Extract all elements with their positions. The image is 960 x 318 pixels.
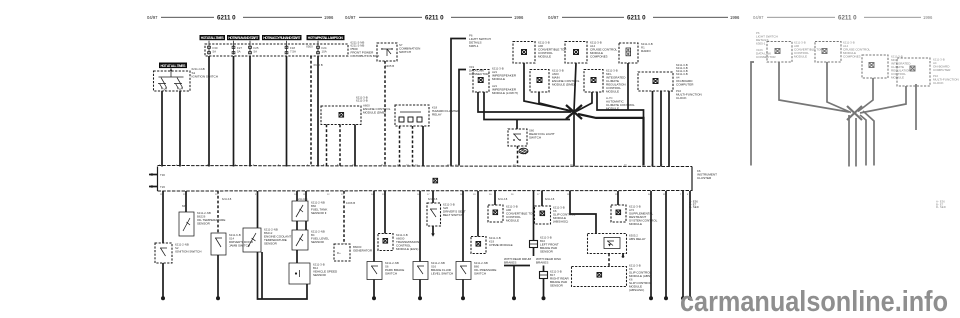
svg-text:CONNECTOR: CONNECTOR xyxy=(469,72,489,76)
wire DME pin 3 to cluster xyxy=(354,125,356,167)
svg-text:COMPUTER: COMPUTER xyxy=(676,83,694,87)
wire DME pin 2 to cluster xyxy=(339,125,341,167)
svg-text:D- SED: D- SED xyxy=(689,205,699,209)
ground dot park brake xyxy=(372,296,376,300)
svg-text:8: 8 xyxy=(687,194,689,196)
svg-text:12: 12 xyxy=(327,194,330,196)
svg-text:04/97: 04/97 xyxy=(345,15,356,20)
fuse F27 xyxy=(232,46,242,55)
slip control module upper box xyxy=(535,206,576,225)
svg-text:SENSOR: SENSOR xyxy=(264,242,278,246)
wire cluster ground run 3 xyxy=(682,191,684,297)
wire between fuel sensors xyxy=(296,221,298,230)
sheet header column 4 xyxy=(753,15,933,22)
splice junction X xyxy=(566,105,582,119)
svg-text:R: R xyxy=(179,88,181,92)
wire cluster to fuel tank sensor xyxy=(296,191,298,201)
wire key switch to ground xyxy=(162,263,164,297)
ground dot pad sensor xyxy=(542,296,546,300)
wire cluster to ignition key switch xyxy=(162,191,164,243)
svg-text:D- SED: D- SED xyxy=(936,205,946,209)
ground dot jamb switch xyxy=(216,296,220,300)
convertible top control module lower xyxy=(488,205,534,223)
off-page arrow to light switch details xyxy=(451,34,491,166)
bus left pin arrow 2 xyxy=(149,185,165,189)
ground dot run 2 xyxy=(664,296,668,300)
wire fuse F25 to cluster xyxy=(249,56,251,167)
svg-text:6211-CAB: 6211-CAB xyxy=(297,198,308,201)
wire climate elbow to cluster corner xyxy=(597,92,644,117)
ghost module box B xyxy=(815,41,871,63)
svg-text:6211-3-B: 6211-3-B xyxy=(498,199,508,201)
off-page arrow to data link connector xyxy=(459,65,489,166)
svg-text:SENSOR: SENSOR xyxy=(313,273,327,277)
bus left pin arrow 1 xyxy=(149,173,165,177)
fuse F18 xyxy=(285,46,296,55)
svg-text:CLUSTER: CLUSTER xyxy=(697,176,712,180)
on-board computer box xyxy=(638,63,702,100)
svg-text:1996: 1996 xyxy=(514,15,524,20)
svg-text:04/97: 04/97 xyxy=(147,15,158,20)
svg-text:T30: T30 xyxy=(160,173,165,177)
dashed wire abs relay to slip module xyxy=(608,254,610,267)
svg-text:8: 8 xyxy=(323,164,325,166)
fuse feed stubs from hot labels xyxy=(209,41,318,47)
svg-text:6305-1: 6305-1 xyxy=(756,42,766,46)
svg-text:19: 19 xyxy=(473,194,476,196)
hot label HOT IN ACCY RUN AND START xyxy=(262,35,302,40)
watermark carmanualsonline.info xyxy=(680,286,948,318)
svg-text:6305-1: 6305-1 xyxy=(469,44,479,48)
svg-text:SENSOR II: SENSOR II xyxy=(311,211,327,215)
svg-text:HOT AT ALL TIMES: HOT AT ALL TIMES xyxy=(161,64,187,68)
engine control module DME box xyxy=(321,96,391,125)
svg-text:7: 7 xyxy=(680,194,682,196)
wire OBC pin 3 to cluster xyxy=(668,91,670,167)
supplemental restraint system control module xyxy=(611,205,658,227)
wire cluster to SRS module xyxy=(617,191,619,205)
wire fog switch to cluster xyxy=(517,146,519,167)
brake fluid level switch xyxy=(413,261,453,280)
ghost wire B to junction xyxy=(827,62,851,113)
svg-text:COMPUTER: COMPUTER xyxy=(933,68,951,72)
wire OBC pin 1 to cluster xyxy=(652,91,654,167)
svg-text:6211-3-B: 6211-3-B xyxy=(545,199,555,201)
svg-text:6211-3-B: 6211-3-B xyxy=(356,98,368,102)
wire cluster to transmission module xyxy=(384,191,386,234)
ghost junction verticals xyxy=(848,115,850,167)
wire cluster ground run 2 xyxy=(665,191,667,297)
wire cluster to seat belt switch xyxy=(432,191,434,203)
ground splice oval xyxy=(519,148,528,154)
svg-text:HOT IN RUN AND START: HOT IN RUN AND START xyxy=(228,36,259,40)
ignition key position switch xyxy=(155,243,201,264)
wire junction down to cluster xyxy=(573,112,575,167)
wire cluster to fuel sensor second xyxy=(305,191,307,201)
svg-text:26: 26 xyxy=(511,194,514,196)
svg-text:MODULE: MODULE xyxy=(492,77,505,81)
svg-text:5A: 5A xyxy=(213,50,217,54)
wire park brake to ground xyxy=(373,280,375,298)
svg-text:13: 13 xyxy=(341,194,344,196)
svg-text:HOT AT ALL TIMES: HOT AT ALL TIMES xyxy=(201,36,225,40)
wire amplifier to junction lower xyxy=(484,92,570,120)
ignition switch S1 xyxy=(154,67,218,92)
svg-text:BELT SWITCH: BELT SWITCH xyxy=(443,213,463,217)
sheet header column 1 xyxy=(147,15,334,22)
svg-text:10A: 10A xyxy=(322,50,327,54)
svg-text:6912 B: 6912 B xyxy=(314,63,323,67)
fuse F30 xyxy=(208,46,218,55)
oil pressure switch xyxy=(456,261,496,280)
wire cluster to oil temperature sensor xyxy=(185,191,187,212)
svg-text:SENSOR: SENSOR xyxy=(550,284,564,288)
slip control module box xyxy=(572,264,652,293)
svg-text:SENSOR: SENSOR xyxy=(197,222,211,226)
svg-text:MODULE: MODULE xyxy=(538,55,551,59)
park brake switch xyxy=(367,261,404,280)
svg-text:04/97: 04/97 xyxy=(548,15,559,20)
svg-text:CONNECTOR: CONNECTOR xyxy=(756,55,776,59)
ground dot run 4 xyxy=(688,296,692,300)
svg-text:6211-3-B: 6211-3-B xyxy=(428,199,438,201)
hot label HOT AT ALL TIMES xyxy=(200,35,226,40)
svg-text:COMPONE3: COMPONE3 xyxy=(843,55,861,59)
hazard flasher relay K18 xyxy=(395,105,460,126)
bus pin numbers top xyxy=(159,164,670,166)
wire cluster to left front brake pad sensor xyxy=(533,191,535,241)
wire cluster to oil pressure switch xyxy=(462,191,464,262)
svg-text:9: 9 xyxy=(337,164,339,166)
svg-text:DISTRIBUTION BOX: DISTRIBUTION BOX xyxy=(351,54,380,58)
svg-text:CHIME MODULE: CHIME MODULE xyxy=(489,243,513,247)
wire cluster to abs relay xyxy=(570,191,596,234)
svg-text:MODULE: MODULE xyxy=(794,55,807,59)
svg-text:M6: M6 xyxy=(182,204,186,208)
svg-text:SWITCH: SWITCH xyxy=(529,136,541,140)
abs relay box xyxy=(588,234,646,254)
ghost module box C xyxy=(862,55,911,80)
svg-text:6305 B: 6305 B xyxy=(385,64,394,68)
wire climate module to junction xyxy=(576,92,592,112)
dashed wire from fuse box xyxy=(310,56,312,167)
wire fuse F18 to cluster xyxy=(286,56,288,167)
svg-text:carmanualsonline.info: carmanualsonline.info xyxy=(680,286,948,318)
main engine control module box xyxy=(530,69,580,93)
sheet header column 2 xyxy=(345,15,524,22)
svg-text:1996: 1996 xyxy=(923,15,933,20)
vehicle speed sensor B12 xyxy=(289,263,338,285)
ground dot ignition xyxy=(161,296,165,300)
svg-text:IGNITION SWITCH: IGNITION SWITCH xyxy=(175,250,201,254)
wire coolant sensor return loop xyxy=(258,252,308,299)
wire oil pressure to ground xyxy=(462,280,464,298)
svg-text:17: 17 xyxy=(427,194,430,196)
ghost wire D pin 2 xyxy=(915,84,917,130)
hot label HOT W/PK/TAIL LAMPS ON xyxy=(307,35,345,40)
svg-text:T26: T26 xyxy=(160,185,165,189)
svg-text:6211 0: 6211 0 xyxy=(838,15,857,22)
wire main engine control to junction xyxy=(539,92,572,112)
driver's seat belt switch xyxy=(427,203,466,227)
rear fog light switch box xyxy=(508,129,555,147)
ghost label stack light switch xyxy=(756,31,778,59)
fuel tank sensor I xyxy=(292,201,327,222)
svg-text:CLOCK: CLOCK xyxy=(933,81,944,85)
svg-text:(ABS/ASC): (ABS/ASC) xyxy=(553,220,568,224)
svg-text:X500: X500 xyxy=(306,44,313,48)
ghost wire off-page xyxy=(751,62,754,166)
hot label HOT IN RUN AND START xyxy=(227,35,260,40)
svg-text:5A: 5A xyxy=(254,50,258,54)
svg-text:20: 20 xyxy=(489,194,492,196)
page reference notes xyxy=(689,200,699,210)
ground dot run 3 xyxy=(681,296,685,300)
svg-text:SWITCH: SWITCH xyxy=(399,50,411,54)
wire ignition 30 to cluster xyxy=(161,91,163,167)
svg-text:20: 20 xyxy=(624,164,627,166)
wire hazard relay pin 2 to cluster xyxy=(412,126,414,167)
svg-text:BRAKES: BRAKES xyxy=(504,261,516,265)
svg-text:MODULE: MODULE xyxy=(606,90,619,94)
svg-text:6211-6-B: 6211-6-B xyxy=(222,199,232,201)
wire cluster ground run 4 xyxy=(689,191,691,297)
svg-text:RADIO: RADIO xyxy=(641,49,651,53)
svg-text:MODULE (EGS): MODULE (EGS) xyxy=(396,247,418,251)
svg-text:5A: 5A xyxy=(237,50,241,54)
wire cluster to chime module xyxy=(477,191,479,237)
wire fog switch feed from bus xyxy=(516,120,518,130)
svg-text:25: 25 xyxy=(215,194,218,196)
svg-text:SWITCH: SWITCH xyxy=(474,272,486,276)
svg-text:HOT IN ACCY RUN AND START: HOT IN ACCY RUN AND START xyxy=(263,36,301,40)
wire fuse F27 to cluster xyxy=(233,56,235,167)
chime module K19 xyxy=(471,236,513,254)
wire DME pin 1 to cluster xyxy=(326,125,328,167)
fuel level sensor B4 xyxy=(292,230,329,251)
svg-text:GENERATOR: GENERATOR xyxy=(353,249,373,253)
wire cluster to convertible top module lower xyxy=(494,191,496,205)
dashed wire combination switch to cluster xyxy=(384,61,386,167)
wire hazard relay pin 1 to cluster xyxy=(399,126,401,167)
svg-text:1006 B: 1006 B xyxy=(346,201,355,205)
wire brake fluid to ground xyxy=(419,280,421,298)
svg-text:D+: D+ xyxy=(337,251,341,255)
transmission control module EGS xyxy=(378,233,419,251)
svg-text:SWITCH: SWITCH xyxy=(385,272,397,276)
with rear drum brakes branch xyxy=(504,257,532,297)
with rear disc brakes branch xyxy=(536,257,562,265)
fuse box P500 front power distribution box xyxy=(205,41,379,58)
svg-text:30: 30 xyxy=(163,88,167,92)
wire fuel level to speed sensor xyxy=(296,250,298,263)
svg-text:ABS RELAY: ABS RELAY xyxy=(629,237,646,241)
wire fuse F24 to cluster xyxy=(317,56,319,167)
bus pin numbers bottom xyxy=(160,194,689,196)
ghost reference notes right xyxy=(936,200,946,210)
ghost wire A to junction xyxy=(779,62,849,112)
fuse F25 xyxy=(249,46,259,55)
engine coolant temperature sensor B6212 xyxy=(243,228,291,253)
oil temperature sensor B6226 xyxy=(179,204,225,236)
wire hazard relay pin 3 to cluster xyxy=(422,126,424,167)
wire seat belt stub xyxy=(432,226,434,234)
svg-text:IGNITION SWITCH: IGNITION SWITCH xyxy=(192,75,218,79)
svg-text:1996: 1996 xyxy=(730,15,740,20)
svg-text:MODULE (LOW H): MODULE (LOW H) xyxy=(492,91,518,95)
dashed wire cluster to door jamb switch xyxy=(217,191,219,233)
right rear brake pad sensor xyxy=(540,266,570,298)
svg-text:BRAKES: BRAKES xyxy=(536,261,548,265)
svg-text:27: 27 xyxy=(537,194,540,196)
svg-text:HOT W/PK/TAIL LAMPS ON: HOT W/PK/TAIL LAMPS ON xyxy=(308,36,344,40)
wire cluster to coolant sensor xyxy=(257,191,259,228)
svg-text:6211 0: 6211 0 xyxy=(627,15,646,22)
svg-text:(ABS/ASC): (ABS/ASC) xyxy=(629,288,644,292)
wire cruise control to junction xyxy=(574,63,576,111)
cruise control module box xyxy=(565,41,618,64)
svg-text:1996: 1996 xyxy=(324,15,334,20)
instrument cluster connector bus K6 xyxy=(158,166,718,192)
wire jamb switch to ground xyxy=(217,255,219,297)
radio box xyxy=(619,42,653,63)
wire code labels below bus xyxy=(222,198,555,201)
svg-text:SENSOR: SENSOR xyxy=(540,250,554,254)
combination switch S7 xyxy=(377,43,420,68)
wire junction elbow to cluster pin xyxy=(578,114,644,166)
wire cluster ground run 1 xyxy=(650,191,652,297)
wire cluster to brake fluid switch xyxy=(419,191,421,262)
wire cluster to slip control module upper xyxy=(541,191,543,206)
svg-text:COMPONE3: COMPONE3 xyxy=(590,55,608,59)
convertible top control module box xyxy=(513,41,566,64)
hot label HOT AT ALL TIMES (ignition) xyxy=(159,63,187,69)
svg-text:MODULE (DME): MODULE (DME) xyxy=(363,111,386,115)
wire coolant sensor second return xyxy=(261,252,263,299)
left front brake pad sensor xyxy=(530,236,559,257)
integrated climate regulation module box xyxy=(584,69,635,111)
svg-text:SENSOR: SENSOR xyxy=(311,240,325,244)
svg-text:6211 0: 6211 0 xyxy=(425,15,444,22)
wire cluster to park brake switch xyxy=(373,191,375,262)
ghost junction X xyxy=(847,106,862,120)
svg-text:JAMB SWITCH: JAMB SWITCH xyxy=(229,244,250,248)
wire amplifier to junction upper xyxy=(478,92,571,112)
wire OBC pin 2 to cluster xyxy=(660,91,662,167)
svg-text:04/97: 04/97 xyxy=(753,15,764,20)
ground dot brake fluid xyxy=(418,296,422,300)
svg-text:LEVEL SWITCH: LEVEL SWITCH xyxy=(431,272,453,276)
wire fuse F30 to cluster xyxy=(208,56,210,167)
svg-text:MODULE: MODULE xyxy=(629,222,642,226)
ghost wire C to junction xyxy=(858,78,873,112)
ground dot drum brakes xyxy=(512,296,516,300)
generator box xyxy=(334,244,373,261)
svg-text:MODULE: MODULE xyxy=(506,219,519,223)
wire radio down joining elbow xyxy=(627,63,629,110)
ghost wire D elbow to junction xyxy=(860,86,906,113)
fuse F24 xyxy=(317,46,327,55)
dashed wire cluster to generator xyxy=(343,191,345,244)
svg-text:CLOCK: CLOCK xyxy=(676,96,687,100)
wire abs relay pin right xyxy=(622,254,624,257)
driver's door jamb switch xyxy=(211,233,254,255)
ground dot oil pressure xyxy=(461,296,465,300)
wire ignition R to cluster xyxy=(179,91,181,167)
bus internal connector symbol xyxy=(433,178,438,183)
ground dot run 1 xyxy=(649,296,653,300)
wire convertible top to junction xyxy=(524,63,572,111)
ghost right column xyxy=(751,15,959,210)
svg-text:RELAY: RELAY xyxy=(432,113,442,117)
svg-text:6211 0: 6211 0 xyxy=(217,15,236,22)
svg-text:15: 15 xyxy=(447,164,450,166)
svg-text:7.5A: 7.5A xyxy=(290,50,296,54)
svg-text:MODULE (DME): MODULE (DME) xyxy=(552,83,575,87)
amplifier module box xyxy=(473,67,518,96)
ghost module box D xyxy=(897,58,959,87)
sheet header column 3 xyxy=(548,15,740,22)
ghost module box A xyxy=(767,41,822,63)
